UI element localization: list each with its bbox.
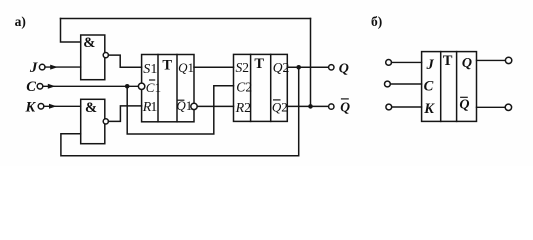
- svg-text:Q: Q: [340, 100, 350, 115]
- svg-text:C1: C1: [146, 80, 161, 95]
- svg-text:Q1: Q1: [178, 60, 194, 75]
- node junction dot on Q-bar wire: [308, 104, 313, 109]
- wire K input: [44, 105, 81, 107]
- wire Q-b output: [477, 59, 506, 61]
- svg-text:&: &: [83, 35, 95, 51]
- overline Qbar b: [461, 96, 468, 98]
- overline Q1bar: [178, 99, 184, 101]
- svg-text:J: J: [426, 57, 435, 73]
- bubble C1 input: [138, 83, 144, 89]
- flip-flop U3 divider left: [157, 55, 159, 122]
- wire J-b: [392, 61, 422, 63]
- svg-text:C: C: [26, 79, 36, 95]
- node junction dot C: [125, 84, 130, 89]
- terminal Q-b circle: [505, 57, 511, 63]
- flip-flop U5 divider left: [440, 52, 442, 122]
- overline Qbar: [342, 98, 349, 100]
- terminal Q circle: [329, 65, 334, 70]
- wire C input: [43, 85, 139, 87]
- svg-text:а): а): [15, 14, 26, 29]
- arrowhead C: [48, 84, 56, 89]
- wire left vertical from top wire to gate1 upper input: [61, 19, 81, 43]
- wire C-b: [390, 83, 421, 85]
- terminal K circle: [38, 104, 44, 110]
- flip-flop U3 body (first T stage): [142, 55, 194, 122]
- terminal K-b circle: [386, 104, 392, 110]
- svg-text:б): б): [371, 14, 382, 29]
- terminal J circle: [39, 64, 45, 70]
- svg-text:Q: Q: [339, 62, 349, 77]
- svg-text:C2: C2: [236, 80, 252, 95]
- gate U1 NAND (J side): [81, 35, 105, 80]
- svg-text:R2: R2: [235, 101, 252, 116]
- svg-text:S1: S1: [143, 62, 157, 77]
- flip-flop U4 body (second T stage): [234, 54, 288, 121]
- svg-text:J: J: [29, 60, 38, 76]
- terminal C circle: [37, 84, 43, 90]
- gate U1 output bubble: [103, 53, 108, 58]
- svg-text:C: C: [424, 78, 434, 94]
- wire Q1 to S2: [194, 66, 234, 68]
- terminal Qbar circle: [329, 104, 334, 109]
- svg-text:Q2: Q2: [272, 100, 288, 115]
- terminal J-b circle: [386, 60, 392, 66]
- svg-text:Q: Q: [459, 97, 469, 112]
- flip-flop U4 divider left: [250, 54, 252, 121]
- wire K-b: [392, 106, 422, 108]
- flip-flop U4 divider right: [270, 54, 272, 121]
- flip-flop U5 divider right: [456, 52, 458, 122]
- arrowhead K: [49, 104, 57, 109]
- wire top feedback horizontal: [61, 18, 311, 20]
- svg-text:K: K: [25, 100, 37, 116]
- svg-text:T: T: [162, 57, 172, 73]
- node junction dot on Q wire: [296, 65, 301, 70]
- overline Q2bar: [274, 99, 280, 101]
- wire bottom feedback (Q to gate U2 input): [61, 67, 299, 156]
- terminal Qbar-b circle: [505, 104, 511, 110]
- overline C1: [150, 79, 155, 81]
- svg-text:Q: Q: [462, 56, 472, 71]
- svg-text:K: K: [423, 101, 435, 117]
- wire feedback vertical right (Q-bar to top wire): [310, 19, 312, 107]
- svg-text:T: T: [254, 56, 264, 72]
- gate U2 NAND (K side): [81, 99, 105, 143]
- wire J input: [45, 66, 81, 68]
- terminal C-b circle: [385, 81, 391, 87]
- wire C to C2 route (down, under block1, up into C2): [127, 86, 233, 134]
- bubble Q1bar output: [191, 103, 197, 109]
- flip-flop U5 body (symbol b): [422, 52, 477, 122]
- svg-text:T: T: [443, 53, 453, 69]
- arrowhead J: [50, 65, 58, 70]
- svg-text:S2: S2: [236, 60, 250, 75]
- wire Qbar-b output: [477, 106, 506, 108]
- flip-flop U3 divider right: [176, 55, 178, 122]
- wire Q2 to Q terminal: [287, 66, 328, 68]
- svg-text:R1: R1: [142, 100, 158, 115]
- wire gate U2 output to R1: [108, 106, 141, 122]
- gate U2 output bubble: [103, 119, 108, 124]
- wire Q1bar to R2: [197, 105, 233, 107]
- wire gate U1 output to S1: [108, 55, 141, 67]
- wire Q2bar to Qbar terminal: [287, 105, 328, 107]
- svg-text:&: &: [85, 100, 97, 116]
